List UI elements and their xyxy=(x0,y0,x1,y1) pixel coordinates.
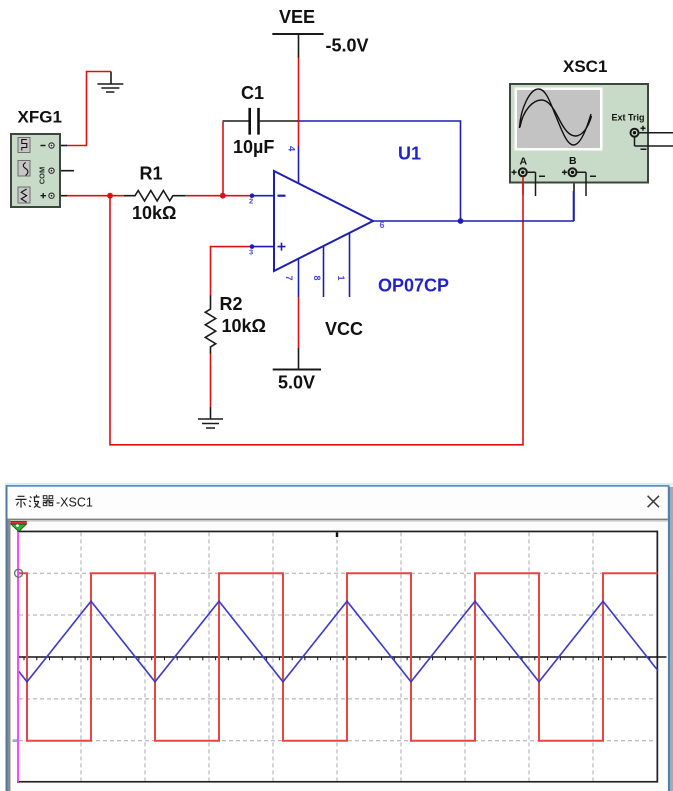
svg-text:6: 6 xyxy=(380,220,385,230)
svg-text:4: 4 xyxy=(286,146,297,152)
svg-text:8: 8 xyxy=(312,276,322,281)
svg-text:Ext Trig: Ext Trig xyxy=(612,113,645,123)
svg-text:10kΩ: 10kΩ xyxy=(132,203,176,223)
svg-text:-XSC1: -XSC1 xyxy=(56,496,93,510)
svg-text:VEE: VEE xyxy=(279,7,315,27)
svg-text:U1: U1 xyxy=(398,144,421,164)
svg-text:-5.0V: -5.0V xyxy=(326,36,369,56)
svg-text:10kΩ: 10kΩ xyxy=(222,316,266,336)
svg-text:3: 3 xyxy=(249,248,253,257)
svg-text:5.0V: 5.0V xyxy=(278,373,315,393)
svg-text:1: 1 xyxy=(336,276,346,281)
svg-text:10µF: 10µF xyxy=(233,137,274,157)
svg-text:R2: R2 xyxy=(220,294,243,314)
svg-text:COM: COM xyxy=(38,167,47,185)
svg-text:2: 2 xyxy=(249,197,253,206)
svg-text:C1: C1 xyxy=(241,83,264,103)
svg-text:R1: R1 xyxy=(140,164,163,184)
svg-text:XFG1: XFG1 xyxy=(18,108,62,127)
svg-text:7: 7 xyxy=(284,276,294,281)
svg-text:OP07CP: OP07CP xyxy=(378,276,449,296)
svg-text:XSC1: XSC1 xyxy=(563,57,607,76)
svg-text:VCC: VCC xyxy=(325,319,363,339)
svg-text:A: A xyxy=(520,156,528,168)
svg-text:B: B xyxy=(569,155,577,167)
